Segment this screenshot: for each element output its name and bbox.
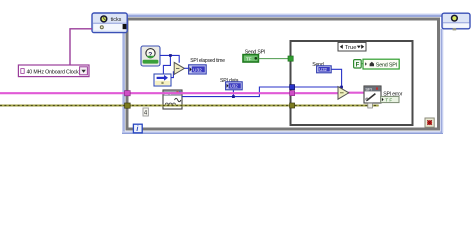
wire clock resource — [70, 29, 92, 65]
wire subtract output — [184, 67, 189, 69]
40 MHz Onboard Clock constant — [18, 65, 89, 77]
svg-text:U32: U32 — [230, 84, 239, 89]
tunnel error on loop border — [125, 103, 131, 108]
wire branch to feedback node — [163, 55, 170, 74]
indicator Send U32 — [317, 66, 332, 73]
svg-text:TF: TF — [246, 56, 252, 61]
wire F to local variable — [361, 63, 363, 65]
junction — [340, 86, 343, 89]
case selector label True — [338, 42, 366, 51]
svg-text:U32: U32 — [319, 67, 327, 72]
svg-text:U32: U32 — [193, 67, 202, 73]
loop iteration terminal i — [133, 124, 142, 133]
svg-text:?: ? — [148, 52, 152, 59]
tunnel cluster on case border — [290, 91, 295, 96]
timed loop left border — [122, 33, 125, 133]
subtract function — [174, 62, 184, 74]
wire error line — [0, 104, 379, 106]
timed loop top border — [126, 14, 443, 17]
wire tick count output — [160, 55, 179, 62]
local variable Send SPI — [363, 59, 399, 69]
svg-text:40 MHz Onboard Clock: 40 MHz Onboard Clock — [27, 70, 80, 76]
svg-text:F: F — [356, 62, 360, 68]
svg-text:SPI elapsed time: SPI elapsed time — [190, 58, 225, 64]
indicator SPI error boolean — [381, 96, 399, 102]
wire SPI command cluster — [0, 92, 338, 94]
indicator SPI data U32 — [226, 82, 243, 90]
wire cluster to SPI write — [348, 92, 364, 94]
selector tunnel — [288, 56, 293, 61]
junction — [169, 54, 172, 57]
constant under SPI write — [368, 103, 373, 108]
timed loop right border — [441, 29, 444, 133]
timed loop output node — [442, 13, 470, 30]
SPI write subVI — [364, 86, 381, 103]
wire boolean to selector — [258, 58, 289, 60]
tunnel SPI data on case border — [290, 85, 295, 90]
loop conditional terminal — [425, 118, 434, 127]
tunnel error on case border — [290, 103, 295, 108]
control Send SPI boolean — [243, 55, 258, 62]
svg-text:True: True — [345, 45, 357, 51]
SPI read subVI — [163, 90, 182, 109]
wire branch Send indicator — [331, 69, 342, 88]
constant 4 — [143, 108, 148, 117]
while loop border — [127, 19, 439, 129]
case structure border — [291, 41, 413, 125]
svg-text:Send SPI: Send SPI — [376, 63, 397, 69]
or function — [338, 87, 349, 100]
feedback node — [154, 74, 171, 86]
wire feedback output — [171, 72, 175, 78]
wire SPI data — [182, 87, 342, 97]
indicator SPI elapsed time U32 — [189, 65, 207, 74]
svg-text:T F: T F — [385, 97, 392, 102]
tunnel cluster on loop border — [125, 91, 131, 96]
svg-text:ticks: ticks — [111, 17, 122, 23]
timed loop input node — [92, 13, 127, 33]
junction — [232, 95, 235, 98]
timed loop bottom border — [122, 131, 443, 134]
wire branch SPI data indicator — [232, 89, 234, 96]
Tick Count VI — [141, 46, 160, 66]
constant False — [354, 60, 362, 69]
svg-text:SPI: SPI — [365, 87, 371, 92]
